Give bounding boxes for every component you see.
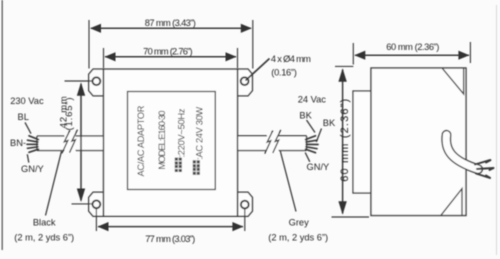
svg-text:BK: BK bbox=[299, 111, 312, 121]
svg-text:(0.16”): (0.16”) bbox=[271, 67, 297, 77]
svg-text:70 mm (2.76”): 70 mm (2.76”) bbox=[143, 46, 193, 56]
svg-text:GN/Y: GN/Y bbox=[307, 162, 330, 172]
svg-text::AC 24V 30W: :AC 24V 30W bbox=[194, 107, 204, 160]
svg-text:Grey: Grey bbox=[289, 217, 309, 227]
svg-text:60 mm (2.36”): 60 mm (2.36”) bbox=[339, 99, 351, 182]
svg-text:GN/Y: GN/Y bbox=[21, 164, 44, 174]
svg-text:AC/AC ADAPTOR: AC/AC ADAPTOR bbox=[136, 105, 146, 176]
svg-text:MODEL:E160-30: MODEL:E160-30 bbox=[157, 111, 167, 170]
svg-text:87 mm (3.43”): 87 mm (3.43”) bbox=[145, 18, 196, 28]
svg-text:4 x Ø4 mm: 4 x Ø4 mm bbox=[271, 54, 311, 64]
svg-text:(2 m, 2 yds 6”): (2 m, 2 yds 6”) bbox=[268, 233, 328, 243]
svg-text:BN-: BN- bbox=[10, 138, 26, 148]
svg-text:BL: BL bbox=[18, 112, 29, 122]
svg-text:Black: Black bbox=[33, 217, 56, 227]
svg-text:77 mm (3.03”): 77 mm (3.03”) bbox=[145, 234, 195, 244]
svg-text:60 mm (2.36”): 60 mm (2.36”) bbox=[386, 42, 439, 52]
svg-text:BK: BK bbox=[323, 118, 336, 128]
svg-text:24 Vac: 24 Vac bbox=[298, 95, 327, 105]
svg-text:(2 m, 2 yds 6”): (2 m, 2 yds 6”) bbox=[14, 233, 74, 243]
svg-text:(1.65”): (1.65”) bbox=[64, 98, 75, 131]
svg-text::220V~50Hz: :220V~50Hz bbox=[176, 108, 186, 157]
svg-text:230 Vac: 230 Vac bbox=[10, 96, 44, 106]
